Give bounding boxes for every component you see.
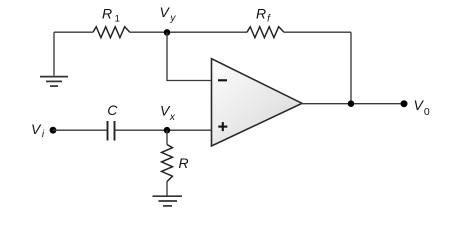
op-amp inverting input pin mark (minus)	[218, 79, 227, 81]
wire: top-left vertical from corner down to ground	[53, 32, 55, 75]
op-amp U1 (triangle body)	[212, 59, 303, 146]
ground (top-left)	[40, 77, 68, 87]
op-amp non-inverting input pin mark (plus)	[218, 122, 227, 131]
wire: op-amp output to terminal V0	[302, 103, 404, 105]
svg-text:C: C	[107, 102, 118, 118]
resistor R1	[93, 27, 130, 38]
wire: feedback vertical drop to output node	[350, 32, 352, 104]
ground (bottom)	[153, 196, 183, 206]
capacitor C	[108, 121, 115, 141]
svg-text:Vi: Vi	[31, 121, 45, 140]
node Vx (junction dot)	[164, 127, 171, 134]
svg-text:R: R	[179, 155, 189, 171]
wire: resistor R to ground	[166, 182, 168, 196]
svg-text:V0: V0	[414, 97, 430, 118]
resistor R	[162, 145, 173, 182]
wire: top rail right segment (Rf to feedback corner)	[284, 31, 351, 33]
wire: capacitor to non-inverting input (through node Vx)	[115, 129, 211, 131]
wire: top rail R1 to Rf (through node Vy)	[130, 31, 247, 33]
wire: top rail left segment (corner to R1)	[54, 31, 93, 33]
node: output feedback junction	[348, 100, 355, 107]
wire: Vx down to resistor R	[166, 130, 168, 144]
svg-text:Vy: Vy	[160, 4, 177, 24]
svg-text:Rf: Rf	[256, 5, 271, 24]
resistor Rf	[247, 27, 284, 38]
svg-text:Vx: Vx	[160, 102, 176, 123]
svg-text:R1: R1	[102, 5, 120, 24]
wire: Vy down to inverting input	[167, 32, 212, 80]
node Vy (junction dot)	[164, 29, 171, 36]
node V0 (output terminal dot)	[401, 100, 408, 107]
wire: Vi to capacitor C	[53, 129, 107, 131]
node Vi (input terminal dot)	[50, 127, 57, 134]
